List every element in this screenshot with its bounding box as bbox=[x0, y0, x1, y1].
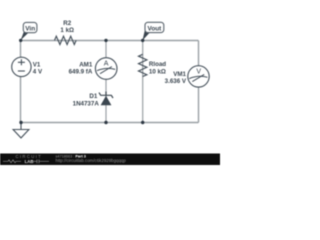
junction ground node bbox=[19, 121, 22, 124]
svg-text:649.9 fA: 649.9 fA bbox=[69, 69, 93, 76]
wire right vertical bbox=[198, 41, 200, 123]
wire left vertical bbox=[20, 41, 22, 123]
wire AM1 branch bbox=[105, 41, 107, 123]
svg-text:1 kΩ: 1 kΩ bbox=[60, 27, 74, 34]
watermark logo right wire bbox=[34, 159, 50, 163]
ground bbox=[13, 123, 29, 138]
wire Rload branch bbox=[142, 41, 144, 123]
zener diode D1 bbox=[99, 92, 113, 106]
wire top rail bbox=[21, 40, 199, 42]
node Vout flag bbox=[143, 22, 164, 40]
svg-text:Vout: Vout bbox=[148, 26, 163, 33]
svg-text:3.636 V: 3.636 V bbox=[165, 78, 187, 85]
svg-text:R2: R2 bbox=[63, 20, 71, 27]
svg-text:LAB: LAB bbox=[25, 159, 34, 164]
svg-text:V1: V1 bbox=[33, 61, 41, 68]
svg-text:http://circuitlab.com/c6k2929b: http://circuitlab.com/c6k2929bgqqqp bbox=[56, 158, 127, 163]
wire bottom rail bbox=[21, 122, 199, 124]
junction Vin node bbox=[19, 39, 22, 42]
resistor Rload bbox=[139, 54, 147, 76]
svg-text:1N4737A: 1N4737A bbox=[73, 100, 100, 107]
svg-text:10 kΩ: 10 kΩ bbox=[149, 68, 166, 75]
junction AM1 top bbox=[104, 39, 107, 42]
svg-text:4 V: 4 V bbox=[33, 68, 43, 75]
svg-text:AM1: AM1 bbox=[79, 62, 93, 69]
node Vin flag bbox=[21, 22, 37, 40]
resistor R2 bbox=[55, 36, 77, 44]
svg-text:Rload: Rload bbox=[149, 61, 166, 68]
voltmeter VM1 bbox=[188, 66, 209, 87]
svg-text:V: V bbox=[196, 68, 201, 75]
watermark bar bbox=[0, 154, 220, 166]
svg-text:D1: D1 bbox=[89, 93, 97, 100]
svg-text:Vin: Vin bbox=[25, 26, 35, 33]
junction Vout node bbox=[141, 39, 144, 42]
voltage source V1 bbox=[12, 57, 31, 76]
ammeter AM1 bbox=[95, 58, 117, 80]
junction D1 bottom bbox=[104, 121, 107, 124]
junction Rload bottom bbox=[141, 121, 144, 124]
svg-text:A: A bbox=[104, 61, 109, 68]
watermark logo LAB wire bbox=[3, 160, 21, 163]
